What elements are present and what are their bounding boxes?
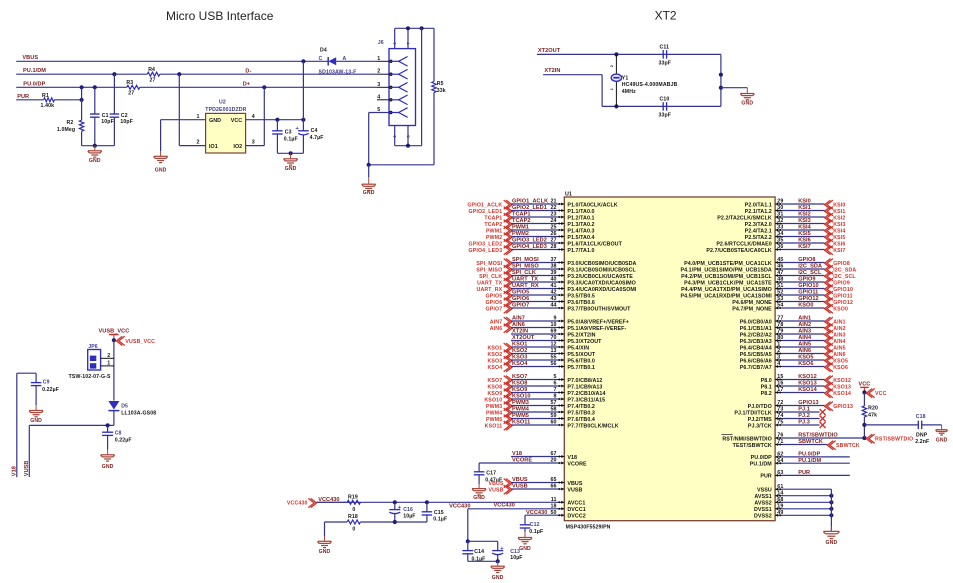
svg-text:VUSB_VCC: VUSB_VCC	[99, 328, 130, 334]
U1 pin 30 P2.1/TA1.2 net KSI1	[745, 205, 846, 216]
wire J6 top rail	[395, 27, 434, 29]
capacitor C4 4.7uF polarized	[296, 120, 324, 154]
svg-text:I2C_SDA: I2C_SDA	[833, 268, 856, 274]
svg-text:D4: D4	[320, 48, 327, 54]
svg-text:SPI_MISO: SPI_MISO	[512, 264, 539, 270]
svg-text:GPIO7: GPIO7	[486, 307, 503, 313]
svg-text:P4.3/PM_UCB1CLK/PM_UCA1STE: P4.3/PM_UCB1CLK/PM_UCA1STE	[684, 280, 772, 286]
capacitor C3 0.1uF	[272, 120, 298, 154]
svg-text:KSO5: KSO5	[833, 359, 848, 365]
svg-text:P3.5/TB0.5: P3.5/TB0.5	[567, 293, 595, 299]
svg-text:KSO10: KSO10	[512, 394, 531, 400]
svg-text:SPI_CLK: SPI_CLK	[479, 274, 502, 280]
wire C1 bottom	[94, 117, 96, 146]
U1 pin 79 P6.2/CB2/A2 net AIN3	[740, 329, 846, 340]
svg-text:UART_TX: UART_TX	[477, 281, 503, 287]
svg-text:KSO11: KSO11	[485, 424, 503, 430]
svg-text:C2: C2	[121, 113, 128, 119]
svg-text:PJ.1/TDI/TCLK: PJ.1/TDI/TCLK	[734, 410, 772, 416]
svg-text:P6.2/CB2/A2: P6.2/CB2/A2	[740, 332, 772, 338]
U1 pin 24 P1.3/TA0.2 net TCAP2	[484, 218, 594, 229]
U1 pin 76 RST/NMI/SBWTDIO	[722, 433, 914, 444]
svg-text:C11: C11	[660, 44, 670, 50]
svg-text:AVSS2: AVSS2	[754, 501, 771, 507]
svg-text:MSP430F5529IPN: MSP430F5529IPN	[566, 525, 611, 531]
gnd U2 pin1	[154, 151, 168, 174]
svg-text:P5.4/XIN: P5.4/XIN	[567, 345, 589, 351]
U1 pin 13 P5.5/XOUT net KSO2	[487, 348, 595, 359]
svg-text:AIN4: AIN4	[798, 335, 812, 341]
gnd C13 C14	[491, 561, 505, 581]
svg-text:P7.0/CB8/A12: P7.0/CB8/A12	[567, 378, 602, 384]
svg-text:P4.1/PM_UCB1SIMO/PM_UCB1SDA: P4.1/PM_UCB1SIMO/PM_UCB1SDA	[680, 267, 771, 273]
svg-text:KSI4: KSI4	[798, 225, 811, 231]
svg-text:GND: GND	[741, 101, 753, 107]
svg-text:UART_RX: UART_RX	[512, 283, 539, 289]
svg-text:42: 42	[550, 290, 556, 296]
svg-text:PWM1: PWM1	[512, 225, 529, 231]
gnd J6	[362, 165, 376, 196]
resistor R19 0	[347, 494, 360, 513]
svg-text:TCAP1: TCAP1	[484, 216, 502, 222]
gnd XT2	[740, 88, 754, 107]
svg-text:TCAP2: TCAP2	[512, 218, 531, 224]
U1 pin 64 PU.1/DM	[750, 458, 850, 468]
wire XT2 bottom	[602, 105, 721, 107]
U1 pin 44 P3.7/TB0OUTH/SVMOUT net GPIO7	[486, 303, 632, 314]
svg-text:GPIO8: GPIO8	[833, 261, 850, 267]
svg-text:I2C_SCL: I2C_SCL	[833, 274, 856, 280]
wire XT2IN	[543, 74, 602, 76]
svg-text:KSO7: KSO7	[512, 374, 527, 380]
svg-text:P4.0/PM_UCB1STE/PM_UCA1CLK: P4.0/PM_UCB1STE/PM_UCA1CLK	[684, 261, 772, 267]
svg-text:TPD2E001DZDR: TPD2E001DZDR	[205, 107, 246, 113]
svg-text:PU.1/DM: PU.1/DM	[750, 462, 773, 468]
svg-text:KSI0: KSI0	[798, 199, 811, 205]
svg-text:37: 37	[550, 257, 556, 263]
svg-text:P2.3/TA2.0: P2.3/TA2.0	[745, 222, 772, 228]
svg-text:P1.3/TA0.2: P1.3/TA0.2	[567, 222, 594, 228]
svg-text:R5: R5	[437, 81, 444, 87]
svg-text:GPIO7: GPIO7	[512, 303, 529, 309]
svg-text:GPIO3_LED2: GPIO3_LED2	[468, 242, 502, 248]
header JP6 TSW-102-07-G-S	[69, 344, 114, 380]
svg-text:33pF: 33pF	[659, 60, 672, 66]
U1 pin 68 AVSS2	[754, 497, 833, 507]
capacitor C12 0.1uF	[520, 522, 544, 535]
resistor R2 1.0Meg	[57, 120, 84, 133]
svg-text:GPIO1_ACLK: GPIO1_ACLK	[467, 203, 502, 209]
svg-text:4MHz: 4MHz	[622, 89, 636, 95]
svg-text:KSO14: KSO14	[798, 387, 817, 393]
gnd below C3 C4	[284, 153, 298, 172]
svg-text:XT2: XT2	[655, 9, 677, 23]
svg-text:R20: R20	[868, 405, 878, 411]
U1 pin 73 PJ.1/TDI/TCLK net PJ.1	[734, 407, 825, 417]
svg-text:GPIO1_ACLK: GPIO1_ACLK	[512, 199, 548, 205]
capacitor C10 33pF	[659, 97, 672, 119]
svg-text:GND: GND	[30, 418, 42, 424]
svg-text:GPIO5: GPIO5	[512, 290, 529, 296]
wire D5 to junction	[113, 411, 115, 426]
svg-text:R2: R2	[67, 120, 74, 126]
wire XT2OUT	[537, 53, 721, 55]
svg-text:D5: D5	[121, 404, 128, 410]
svg-text:PWM3: PWM3	[486, 404, 502, 410]
U1 pin 53 P4.6/PM_NONE net GPIO12	[732, 296, 853, 307]
U1 pin 66 VUSB	[488, 484, 582, 495]
svg-text:28: 28	[550, 244, 556, 250]
svg-text:GND: GND	[155, 168, 167, 174]
U1 pin 55 P5.6/TB0.0 net KSO3	[487, 355, 594, 366]
wire C3 C4 bottom rail	[277, 152, 303, 154]
svg-text:20: 20	[550, 458, 556, 464]
U1 pin 46 P4.1/PM_UCB1SIMO/PM_UCB1SDA net I2C_SDA	[680, 264, 856, 275]
J6 pin 3	[377, 82, 408, 92]
svg-text:P8.1: P8.1	[761, 384, 772, 390]
svg-text:7: 7	[553, 387, 556, 393]
svg-text:GND: GND	[363, 190, 375, 196]
svg-text:P4.2/PM_UCB1SOMI/PM_UCB1SCL: P4.2/PM_UCB1SOMI/PM_UCB1SCL	[681, 274, 772, 280]
svg-text:GPIO6: GPIO6	[512, 296, 529, 302]
wire gnd rail J6	[369, 164, 434, 166]
svg-text:VCC430: VCC430	[526, 510, 547, 516]
U1 pin 61 VSSU	[757, 484, 831, 494]
svg-text:43: 43	[550, 296, 556, 302]
svg-text:PU.1/DM: PU.1/DM	[798, 458, 821, 464]
svg-text:GPIO11: GPIO11	[798, 290, 818, 296]
U1 pin 69 P5.2/XT2IN net XT2IN	[511, 329, 596, 339]
svg-text:GPIO12: GPIO12	[833, 300, 853, 306]
U1 pin 28 P1.7/TA1.0 net GPIO4_LED3	[468, 244, 594, 255]
wire VCC430 to R19	[316, 501, 347, 503]
svg-text:AIN2: AIN2	[798, 322, 811, 328]
svg-text:VUSB: VUSB	[567, 487, 582, 493]
svg-text:0.22µF: 0.22µF	[115, 438, 132, 444]
svg-text:10µF: 10µF	[510, 555, 522, 561]
svg-text:V18: V18	[512, 451, 522, 457]
svg-text:P3.4/UCA0RXD/UCA0SOMI: P3.4/UCA0RXD/UCA0SOMI	[567, 287, 637, 293]
svg-text:2.2nF: 2.2nF	[915, 439, 929, 445]
U1 pin 71 TEST/SBWTCK	[733, 439, 860, 450]
svg-text:VBUS: VBUS	[567, 481, 582, 487]
svg-text:C14: C14	[474, 549, 484, 555]
svg-text:0.22µF: 0.22µF	[42, 387, 59, 393]
svg-text:KSO6: KSO6	[798, 361, 813, 367]
svg-text:10: 10	[550, 322, 556, 328]
svg-text:SBWTCK: SBWTCK	[798, 439, 823, 445]
svg-text:KSO11: KSO11	[512, 420, 530, 426]
svg-text:1: 1	[777, 342, 780, 348]
svg-text:P6.0/CB0/A0: P6.0/CB0/A0	[740, 319, 772, 325]
svg-text:23: 23	[550, 212, 556, 218]
svg-text:SPI_CLK: SPI_CLK	[512, 270, 536, 276]
svg-text:KSI5: KSI5	[798, 231, 811, 237]
svg-text:GND: GND	[826, 540, 838, 546]
U1 pin 41 P3.4/UCA0RXD/UCA0SOMI net UART_RX	[477, 283, 637, 294]
svg-text:AVCC1: AVCC1	[567, 501, 585, 507]
svg-text:PWM5: PWM5	[512, 413, 529, 419]
svg-text:2: 2	[196, 140, 199, 146]
U1 pin 1 P6.4/CB4/A4 net AIN5	[740, 342, 846, 353]
svg-text:12: 12	[550, 342, 556, 348]
svg-text:KSO9: KSO9	[512, 387, 527, 393]
svg-text:C17: C17	[486, 471, 496, 477]
U1 pin 20 VCORE	[479, 458, 587, 468]
svg-text:P3.1/UCB0SOMI/UCB0SCL: P3.1/UCB0SOMI/UCB0SCL	[567, 267, 636, 273]
svg-text:KSO9: KSO9	[487, 391, 502, 397]
svg-text:VUSB_VCC: VUSB_VCC	[125, 339, 155, 345]
svg-text:KSI0: KSI0	[833, 203, 845, 209]
svg-text:PUR: PUR	[760, 474, 772, 480]
svg-text:VBUS: VBUS	[488, 481, 503, 487]
svg-text:P6.7/CB7/A7: P6.7/CB7/A7	[740, 365, 772, 371]
svg-text:Micro USB Interface: Micro USB Interface	[166, 9, 274, 23]
svg-text:KSO5: KSO5	[798, 355, 813, 361]
svg-text:GPIO8: GPIO8	[798, 257, 815, 263]
svg-text:PWM1: PWM1	[486, 229, 502, 235]
svg-text:GPIO4_LED3: GPIO4_LED3	[468, 248, 502, 254]
U1 pin 4 P6.7/CB7/A7 net KSO6	[740, 361, 848, 372]
U1 pin 10 P5.1/A9/VREF-/VEREF- net AIN6	[490, 322, 627, 333]
svg-text:TCAP1: TCAP1	[512, 212, 531, 218]
U1 pin 67 V18	[511, 451, 577, 461]
svg-text:47k: 47k	[868, 412, 877, 418]
U1 pin 11 AVCC1	[317, 497, 585, 508]
wire C18 to gnd	[922, 424, 942, 426]
svg-text:C15: C15	[434, 510, 444, 516]
capacitor C2 10pF	[110, 113, 133, 125]
svg-text:KSO2: KSO2	[512, 348, 527, 354]
svg-text:GND: GND	[519, 546, 531, 552]
U1 pin 78 P6.1/CB1/A1 net AIN2	[740, 322, 846, 333]
svg-text:PWM4: PWM4	[486, 411, 502, 417]
svg-text:XT2OUT: XT2OUT	[512, 335, 535, 341]
svg-text:SD103AW-13-F: SD103AW-13-F	[319, 70, 357, 76]
flag VCC	[866, 389, 886, 398]
svg-text:10pF: 10pF	[101, 119, 114, 125]
svg-text:KSI1: KSI1	[798, 205, 811, 211]
svg-text:P1.6/TA1CLK/CBOUT: P1.6/TA1CLK/CBOUT	[567, 241, 622, 247]
capacitor C1 10pF	[90, 113, 114, 125]
svg-text:2: 2	[610, 65, 614, 67]
svg-text:I2C_SCL: I2C_SCL	[798, 270, 822, 276]
gnd VSS bus	[823, 526, 839, 546]
svg-text:P5.5/XOUT: P5.5/XOUT	[567, 352, 595, 358]
U1 pin 48 P4.3/PM_UCB1CLK/PM_UCA1STE net GPIO9	[684, 277, 850, 288]
svg-text:DVSS2: DVSS2	[754, 514, 772, 520]
svg-text:SPI_MISO: SPI_MISO	[476, 268, 502, 274]
svg-text:PU.0/DP: PU.0/DP	[751, 455, 773, 461]
U1 pin 3 P6.6/CB6/A6 net KSO5	[740, 355, 848, 366]
svg-text:V18: V18	[567, 455, 577, 461]
svg-text:GND: GND	[936, 438, 948, 444]
U1 pin 42 P3.5/TB0.5 net GPIO5	[486, 290, 595, 301]
svg-text:P2.4/TA2.1: P2.4/TA2.1	[745, 228, 772, 234]
U1 pin 6 P7.1/CB9/A13 net KSO8	[487, 381, 602, 392]
svg-text:TEST/SBWTCK: TEST/SBWTCK	[733, 443, 772, 449]
svg-text:GND: GND	[209, 118, 221, 124]
svg-text:UART_RX: UART_RX	[477, 287, 503, 293]
U1 pin 27 P1.6/TA1CLK/CBOUT net GPIO3_LED2	[468, 238, 622, 249]
svg-text:P5.6/TB0.0: P5.6/TB0.0	[567, 358, 595, 364]
wire J6 shield vertical	[421, 28, 423, 145]
svg-text:PU.0/DP: PU.0/DP	[798, 452, 820, 458]
capacitor C15 0.1uF	[422, 502, 448, 522]
svg-text:VCC: VCC	[875, 391, 887, 397]
svg-text:10µF: 10µF	[403, 513, 415, 519]
U1 pin 62 PU.0/DP	[751, 452, 850, 462]
svg-text:PJ.2: PJ.2	[798, 413, 810, 419]
svg-text:GND: GND	[492, 575, 504, 581]
svg-text:AIN3: AIN3	[833, 333, 846, 339]
wire R2 to bottom	[81, 131, 83, 146]
svg-text:P2.0/TA1.1: P2.0/TA1.1	[745, 202, 772, 208]
IC U2 TPD2E001DZDR	[205, 100, 246, 153]
svg-text:13: 13	[550, 348, 556, 354]
U1 pin 58 P7.5/TB0.3 net PWM4	[486, 407, 595, 418]
U1 pin 8 P7.3/CB11/A15 net KSO10	[484, 394, 605, 405]
svg-text:C10: C10	[660, 97, 670, 103]
svg-text:KSO7: KSO7	[487, 378, 502, 384]
svg-text:HC49US-4.000MABJB: HC49US-4.000MABJB	[622, 82, 678, 88]
svg-text:KSI3: KSI3	[833, 222, 845, 228]
svg-text:KSI5: KSI5	[833, 235, 845, 241]
svg-text:P2.5/TA2.2: P2.5/TA2.2	[745, 235, 772, 241]
svg-text:VCC: VCC	[858, 381, 870, 387]
svg-text:DVCC2: DVCC2	[567, 514, 585, 520]
svg-text:60: 60	[550, 420, 556, 426]
svg-text:GND: GND	[319, 549, 331, 555]
wire C2 vertical	[113, 74, 115, 114]
svg-text:R19: R19	[348, 494, 358, 500]
svg-text:C4: C4	[311, 128, 318, 134]
svg-text:I2C_SDA: I2C_SDA	[798, 264, 822, 270]
capacitor C16 10uF polarized	[389, 502, 415, 522]
svg-text:GPIO13: GPIO13	[833, 404, 853, 410]
svg-text:C9: C9	[43, 379, 50, 385]
svg-text:P3.7/TB0OUTH/SVMOUT: P3.7/TB0OUTH/SVMOUT	[567, 306, 631, 312]
wire VBUS	[16, 60, 328, 62]
svg-text:67: 67	[550, 451, 556, 457]
wire VUSB_VCC down to D5	[113, 340, 115, 400]
J6 tab pins 8 9 bottom	[393, 126, 410, 146]
svg-text:P7.1/CB9/A13: P7.1/CB9/A13	[567, 384, 602, 390]
svg-text:SBWTCK: SBWTCK	[836, 443, 860, 449]
svg-text:C: C	[319, 56, 323, 62]
svg-text:U1: U1	[565, 191, 572, 197]
svg-text:KSO8: KSO8	[512, 381, 527, 387]
svg-text:4.7µF: 4.7µF	[310, 135, 324, 141]
U1 pin 36 P2.7/UCB0STE/UCA0CLK net KSI7	[706, 244, 845, 255]
U1 pin 15 P8.0 net KSO12	[761, 374, 852, 385]
svg-text:GND: GND	[102, 464, 114, 470]
svg-text:26: 26	[550, 231, 556, 237]
svg-text:P4.6/PM_NONE: P4.6/PM_NONE	[732, 300, 772, 306]
svg-text:C12: C12	[530, 522, 540, 528]
wire C14 C13 bottom rail	[468, 560, 498, 562]
svg-text:PJ.3/TCK: PJ.3/TCK	[748, 423, 772, 429]
svg-text:KSI7: KSI7	[798, 244, 811, 250]
svg-text:27: 27	[128, 90, 134, 96]
svg-text:69: 69	[550, 329, 556, 335]
svg-text:58: 58	[550, 407, 556, 413]
wire C4 vertical to VBUS	[302, 61, 304, 119]
U1 pin 34 P2.5/TA2.2 net KSI5	[745, 231, 846, 242]
gnd C17	[472, 484, 486, 501]
svg-text:P6.3/CB3/A3: P6.3/CB3/A3	[740, 339, 772, 345]
svg-text:VUSB: VUSB	[512, 484, 528, 490]
svg-text:P1.1/TA0.0: P1.1/TA0.0	[567, 209, 594, 215]
svg-text:AIN6: AIN6	[512, 322, 525, 328]
svg-text:1: 1	[196, 114, 199, 120]
svg-text:KSO10: KSO10	[484, 398, 502, 404]
svg-text:GPIO5: GPIO5	[486, 294, 503, 300]
svg-text:GPIO2_LED1: GPIO2_LED1	[468, 209, 502, 215]
svg-text:AIN2: AIN2	[833, 326, 846, 332]
svg-text:44: 44	[550, 303, 556, 309]
svg-text:PWM2: PWM2	[512, 231, 529, 237]
svg-text:VCORE: VCORE	[567, 461, 587, 467]
wire C2 bottom	[113, 117, 115, 146]
svg-text:KSO2: KSO2	[487, 352, 502, 358]
svg-text:SPI_MOSI: SPI_MOSI	[512, 257, 539, 263]
gnd C8	[101, 450, 115, 471]
svg-text:DVSS1: DVSS1	[754, 507, 772, 513]
capacitor C13 10uF polarized	[492, 541, 522, 561]
svg-text:KSI2: KSI2	[833, 216, 845, 222]
svg-text:27: 27	[150, 77, 156, 83]
svg-text:AIN5: AIN5	[833, 346, 846, 352]
svg-text:KSI7: KSI7	[833, 248, 845, 254]
svg-text:IO2: IO2	[233, 144, 242, 150]
wire U2 pin1 to gnd	[160, 120, 162, 151]
svg-text:6: 6	[553, 381, 556, 387]
U1 pin 51 P4.4/PM_UCA1TXD/PM_UCA1SIMO net GPIO10	[681, 283, 853, 294]
capacitor C14 0.1uF	[462, 541, 485, 562]
svg-text:P3.6/TB0.6: P3.6/TB0.6	[567, 300, 595, 306]
svg-text:P7.6/TB0.4: P7.6/TB0.4	[567, 417, 595, 423]
U1 pin 32 P2.3/TA2.0 net KSI3	[745, 218, 846, 229]
svg-text:P8.0: P8.0	[761, 378, 772, 384]
svg-text:GPIO9: GPIO9	[833, 281, 850, 287]
svg-text:GND: GND	[473, 495, 485, 501]
svg-text:GND: GND	[89, 158, 101, 164]
U1 pin 38 P3.1/UCB0SOMI/UCB0SCL net SPI_MISO	[476, 264, 636, 275]
U1 pin 63 PUR	[760, 470, 849, 480]
wire to gnd XT2	[721, 87, 747, 89]
wire junction to C18	[864, 424, 918, 426]
gnd R18	[318, 536, 332, 555]
svg-text:GPIO10: GPIO10	[798, 283, 818, 289]
svg-text:C8: C8	[115, 431, 122, 437]
svg-text:P5.2/XT2IN: P5.2/XT2IN	[567, 332, 595, 338]
svg-text:4: 4	[252, 114, 255, 120]
flag VUSB_VCC	[116, 336, 155, 345]
svg-text:PJ.0/TDO: PJ.0/TDO	[748, 404, 772, 410]
svg-text:KSI6: KSI6	[798, 238, 811, 244]
svg-text:R3: R3	[126, 80, 133, 86]
svg-text:KSO13: KSO13	[833, 385, 851, 391]
J6 pin 2	[377, 69, 408, 79]
svg-text:DNP: DNP	[916, 433, 928, 439]
svg-text:P4.7/PM_NONE: P4.7/PM_NONE	[732, 306, 772, 312]
svg-text:D+: D+	[243, 82, 251, 88]
svg-text:P2.7/UCB0STE/UCA0CLK: P2.7/UCB0STE/UCA0CLK	[706, 248, 772, 254]
svg-text:66: 66	[550, 484, 556, 490]
svg-text:VUSB: VUSB	[488, 488, 503, 494]
wire XT2 right vertical	[720, 54, 722, 106]
